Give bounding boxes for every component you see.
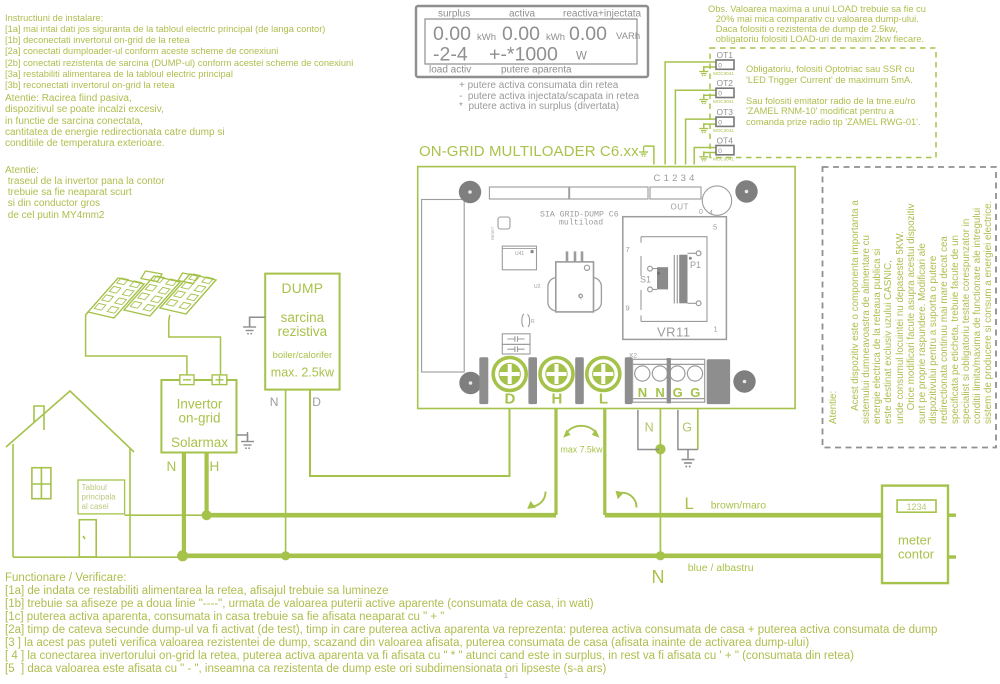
svg-text:N: N	[645, 421, 654, 435]
svg-text:surplus: surplus	[438, 9, 470, 20]
svg-text:brown/maro: brown/maro	[711, 500, 767, 512]
svg-text:al casei: al casei	[82, 502, 109, 511]
svg-text:Tabloul: Tabloul	[82, 483, 108, 492]
svg-text:D: D	[312, 395, 321, 409]
svg-text:activa: activa	[509, 9, 536, 20]
svg-text:0.00: 0.00	[502, 23, 540, 45]
svg-text:L: L	[599, 391, 608, 408]
svg-text:DUMP: DUMP	[281, 281, 323, 296]
svg-text:1234: 1234	[906, 502, 926, 512]
svg-text:sarcina: sarcina	[281, 310, 325, 325]
svg-text:contor: contor	[898, 547, 935, 562]
svg-text:principala: principala	[82, 493, 117, 502]
svg-text:VR11: VR11	[657, 325, 691, 340]
svg-text:kWh: kWh	[477, 32, 496, 43]
svg-text:on-grid: on-grid	[178, 411, 220, 426]
svg-text:rezistiva: rezistiva	[278, 324, 328, 339]
svg-text:5: 5	[713, 223, 717, 232]
svg-text:MOC3041: MOC3041	[713, 156, 734, 161]
svg-text:C 1 2 3 4: C 1 2 3 4	[654, 173, 695, 184]
svg-text:N: N	[638, 385, 647, 400]
svg-text:R: R	[531, 319, 535, 325]
svg-text:D: D	[505, 391, 516, 408]
svg-text:putere aparenta: putere aparenta	[501, 65, 572, 76]
svg-text:G: G	[682, 421, 692, 435]
svg-text:0.00: 0.00	[569, 23, 607, 45]
svg-text:7: 7	[626, 245, 630, 254]
svg-text:N: N	[655, 385, 664, 400]
svg-text:boiler/calorifer: boiler/calorifer	[273, 350, 333, 361]
svg-text:Invertor: Invertor	[177, 397, 223, 412]
svg-text:OUT: OUT	[671, 203, 689, 212]
svg-text:OT4: OT4	[717, 136, 734, 146]
svg-text:H: H	[552, 391, 563, 408]
svg-text:MOC3041: MOC3041	[713, 128, 734, 133]
svg-text:0.00: 0.00	[433, 23, 471, 45]
svg-text:kWh: kWh	[546, 32, 565, 43]
svg-text:RESET: RESET	[490, 226, 495, 240]
svg-text:H: H	[210, 459, 220, 474]
svg-text:X2: X2	[629, 353, 637, 360]
svg-text:L: L	[685, 494, 694, 513]
svg-text:-2-4: -2-4	[433, 44, 468, 66]
svg-text:G: G	[673, 385, 683, 400]
svg-text:VARh: VARh	[616, 31, 640, 42]
svg-text:max. 2.5kw: max. 2.5kw	[271, 366, 335, 380]
svg-text:OT2: OT2	[717, 78, 734, 88]
svg-text:4: 4	[709, 210, 713, 217]
svg-text:OT1: OT1	[717, 50, 734, 60]
svg-text:+-*1000: +-*1000	[489, 44, 558, 66]
svg-text:U41: U41	[515, 251, 524, 257]
svg-text:MOC3041: MOC3041	[713, 99, 734, 104]
svg-text:1: 1	[714, 325, 718, 334]
svg-text:multiload: multiload	[559, 218, 603, 228]
svg-text:S1: S1	[640, 275, 651, 285]
svg-text:MOC3041: MOC3041	[713, 71, 734, 76]
svg-text:OT3: OT3	[717, 107, 734, 117]
svg-text:N: N	[270, 395, 279, 409]
svg-text:load activ: load activ	[429, 65, 471, 76]
svg-text:N: N	[167, 459, 177, 474]
svg-text:max 7.5kw: max 7.5kw	[561, 445, 604, 455]
svg-text:Solarmax: Solarmax	[171, 435, 228, 450]
svg-text:P1: P1	[690, 260, 701, 270]
svg-text:W: W	[576, 51, 587, 63]
svg-text:U2: U2	[534, 284, 541, 290]
svg-text:Q: Q	[578, 294, 583, 300]
svg-text:0: 0	[699, 209, 703, 216]
svg-text:G: G	[690, 385, 700, 400]
svg-text:reactiva+injectata: reactiva+injectata	[563, 9, 642, 20]
svg-text:9: 9	[626, 304, 630, 313]
svg-text:meter: meter	[898, 533, 932, 548]
svg-text:ON-GRID MULTILOADER C6.xx: ON-GRID MULTILOADER C6.xx	[419, 143, 639, 160]
